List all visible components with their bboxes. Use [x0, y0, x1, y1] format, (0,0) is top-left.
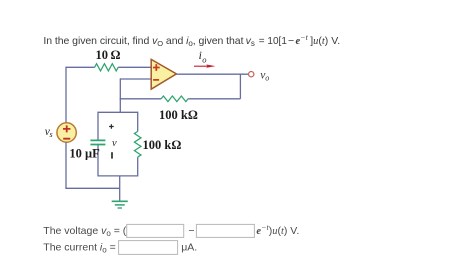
answer box 3 [119, 241, 178, 255]
op-amp U1 [151, 59, 176, 89]
wire feedback vertical tap [239, 74, 241, 99]
label 100k right [143, 138, 182, 152]
answer line 1 text [43, 225, 126, 238]
wire left vertical upper [65, 67, 67, 123]
svg-text:e−t)u(t) V.: e−t)u(t) V. [256, 223, 299, 237]
svg-text:vs= 10[1−e−t]u(t) V.: vs= 10[1−e−t]u(t) V. [246, 33, 341, 48]
wire bottom [65, 187, 119, 189]
answer box 1 [127, 224, 184, 237]
wire minus input horizontal [120, 78, 151, 80]
label vs [45, 126, 53, 139]
svg-text:100 kΩ: 100 kΩ [143, 138, 182, 152]
source vs [57, 123, 76, 142]
svg-text:o: o [265, 74, 269, 83]
svg-text:μA.: μA. [181, 241, 197, 253]
answer box 2 [196, 224, 254, 237]
wire top (vs to op-amp + input) left stub [66, 66, 95, 68]
svg-text:−: − [188, 225, 194, 237]
resistor R1 10 ohm [95, 64, 119, 71]
resistor R3 100k vertical [134, 131, 141, 157]
wire left vertical lower [65, 142, 67, 188]
box left edge upper + cap gap [97, 112, 137, 177]
svg-text:s: s [50, 130, 53, 139]
label 10 ohm [96, 48, 121, 62]
question text line [43, 33, 340, 48]
plus polarity in box [109, 124, 114, 129]
svg-text:The current io =: The current io = [43, 241, 115, 254]
label io [199, 50, 207, 65]
label 10uF [69, 147, 100, 161]
label v across capacitor [112, 138, 117, 149]
svg-text:100 kΩ: 100 kΩ [159, 108, 198, 122]
svg-text:The voltage vo = (: The voltage vo = ( [43, 225, 126, 238]
svg-text:10 Ω: 10 Ω [96, 48, 121, 62]
wire feedback right segment [188, 98, 240, 100]
svg-text:10 μF: 10 μF [69, 147, 100, 161]
ground [112, 201, 128, 208]
answer line 2 text [43, 241, 115, 254]
current io arrow [194, 65, 216, 68]
svg-text:In the given circuit, find vO: In the given circuit, find vO and io, gi… [43, 35, 243, 48]
wire top right into + input [118, 66, 151, 68]
minus polarity bar in box [111, 152, 113, 158]
wire vertical minus node to box top [119, 78, 121, 112]
label vo [260, 70, 269, 83]
box right edge stubs [137, 112, 139, 177]
label 100k feedback [159, 108, 198, 122]
wire feedback left segment [120, 98, 162, 100]
minus between boxes [188, 225, 194, 237]
capacitor C1 10uF plates [90, 140, 105, 144]
answer line 2 tail uA [181, 241, 197, 253]
output terminal node vo [249, 72, 254, 77]
box top edge [98, 111, 138, 113]
wire box bottom to ground [119, 176, 121, 201]
svg-text:v: v [112, 138, 117, 149]
answer line 1 tail [256, 223, 299, 237]
svg-text:o: o [202, 54, 206, 64]
wire output [176, 73, 248, 75]
resistor R2 100k feedback [161, 96, 188, 102]
